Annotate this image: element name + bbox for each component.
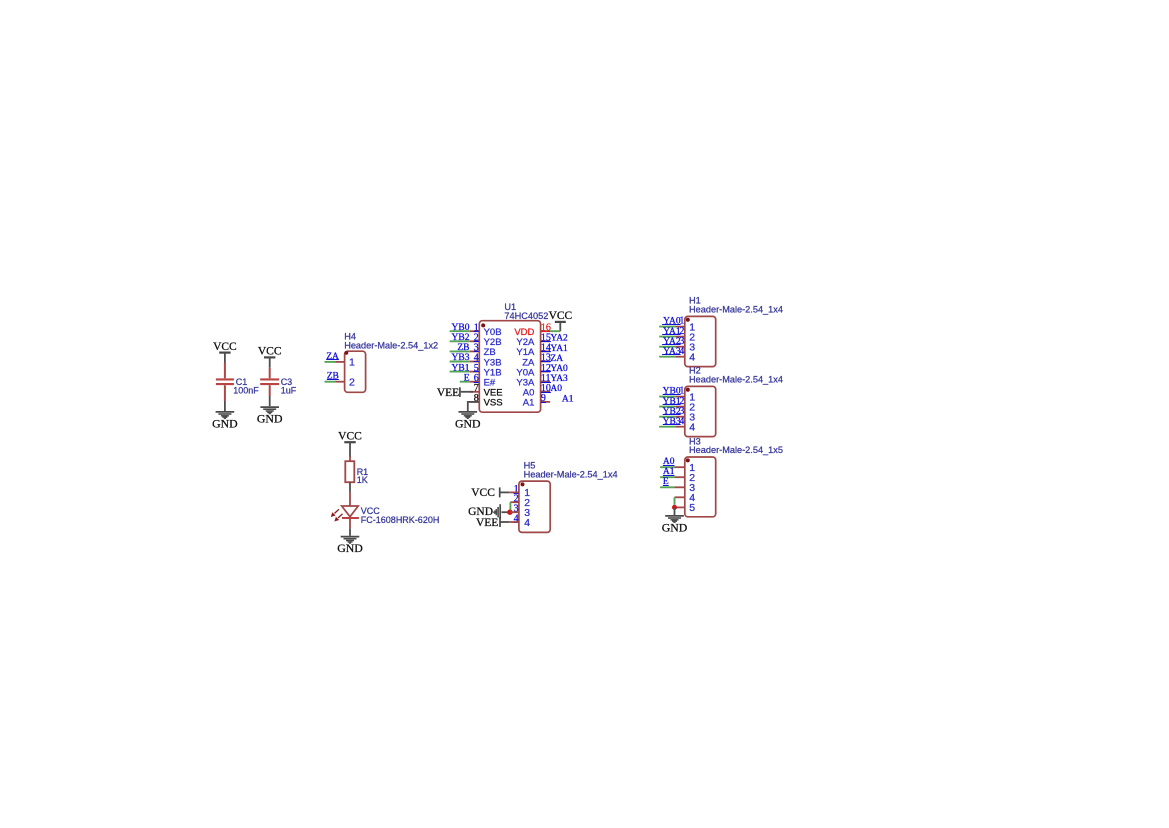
svg-text:GND: GND — [662, 520, 688, 534]
U1 pin 10 — [541, 391, 551, 393]
label R1 1K — [357, 467, 369, 485]
svg-text:YB3: YB3 — [452, 353, 470, 363]
H5 pin 3 — [510, 511, 519, 513]
net label YA0 at H1 pin 1 — [662, 317, 681, 327]
H2 pin 2 — [675, 406, 685, 408]
wire net ZB to H4 pin 2 — [325, 381, 336, 383]
svg-text:YB2: YB2 — [452, 333, 470, 343]
svg-text:E: E — [464, 373, 470, 383]
U1 pin number 5 — [474, 363, 479, 374]
svg-text:FC-1608HRK-620H: FC-1608HRK-620H — [361, 515, 440, 525]
U1 pin 16 — [541, 330, 551, 332]
svg-text:VEE: VEE — [476, 517, 498, 529]
svg-text:VCC: VCC — [258, 346, 282, 358]
H5 pin number 2 — [514, 494, 519, 505]
svg-text:Header-Male-2.54_1x2: Header-Male-2.54_1x2 — [344, 340, 438, 350]
svg-text:A0: A0 — [550, 384, 562, 394]
U1 pin 9 — [541, 401, 551, 403]
label H1 — [689, 296, 783, 315]
net label YB0 at H2 pin 1 — [663, 387, 681, 397]
H2 pin 1 — [675, 396, 685, 398]
svg-text:Header-Male-2.54_1x4: Header-Male-2.54_1x4 — [689, 374, 783, 384]
svg-text:4: 4 — [524, 517, 530, 529]
svg-text:VCC: VCC — [471, 487, 495, 499]
H2 pin 3 — [675, 416, 685, 418]
svg-text:YB3: YB3 — [663, 417, 681, 427]
H5 pin 2 — [510, 501, 519, 503]
wire net YA2 to H1 pin 3 — [659, 346, 675, 348]
svg-text:YA1: YA1 — [550, 344, 568, 354]
label H2 — [689, 366, 783, 385]
U1 pin number 14 — [541, 343, 551, 354]
wire net YB0 to U1 pin 1 — [450, 330, 470, 332]
wire H5 pin 2 to pin 3 junction — [509, 502, 511, 510]
svg-text:YA2: YA2 — [550, 334, 568, 344]
wire C1 to GND — [224, 401, 226, 411]
ground symbol GND at H3 — [662, 516, 688, 534]
ground symbol GND at C1 — [212, 412, 238, 430]
wire net YB1 to U1 pin 5 — [450, 371, 470, 373]
svg-text:8: 8 — [474, 393, 479, 404]
U1 pin number 12 — [541, 363, 551, 374]
svg-text:VEE: VEE — [437, 387, 459, 399]
ground symbol GND at U1 — [455, 412, 481, 430]
svg-text:YB0: YB0 — [663, 387, 681, 397]
svg-text:GND: GND — [257, 412, 283, 426]
svg-text:VCC: VCC — [549, 310, 573, 322]
svg-text:GND: GND — [455, 416, 481, 430]
connector H3 body — [685, 457, 716, 517]
power flag VCC at R1 — [338, 431, 362, 457]
power flag VCC at U1 pin 16 — [549, 310, 573, 331]
svg-text:ZB: ZB — [457, 343, 469, 353]
H4 pin 1 — [335, 361, 344, 363]
wire net YB3 to H2 pin 4 — [659, 426, 675, 428]
wire net YB3 to U1 pin 4 — [450, 361, 470, 363]
net label YB1 at H2 pin 2 — [663, 397, 681, 407]
junction at H5 pin 3 — [507, 510, 512, 515]
ground symbol GND at R1 LED — [337, 537, 363, 555]
net label ZB at H4 pin 2 — [327, 372, 339, 382]
H5 pin number 3 — [514, 504, 519, 515]
U1 pin 2 — [470, 340, 480, 342]
net label YB0 at U1 pin 1 — [452, 323, 470, 333]
H1 pin 2 — [675, 336, 685, 338]
H3 pin 2 — [675, 476, 685, 478]
net label YB1 at U1 pin 5 — [452, 363, 470, 373]
svg-text:YB1: YB1 — [663, 397, 681, 407]
U1 pin 13 — [541, 361, 551, 363]
capacitor C3 — [260, 368, 279, 396]
capacitor C1 — [216, 363, 234, 402]
svg-text:GND: GND — [212, 416, 238, 430]
U1 pin 4 — [470, 361, 480, 363]
wire net YA0 to H1 pin 1 — [659, 326, 675, 328]
wire net YA1 to H1 pin 2 — [659, 336, 675, 338]
net label YA1 at H1 pin 2 — [662, 327, 681, 337]
wire net A0 to H3 pin 1 — [660, 466, 675, 468]
op IC U1 body — [479, 321, 540, 413]
net label A0 at H3 pin 1 — [663, 457, 675, 467]
power flag VEE at U1 pin 7 — [437, 387, 473, 399]
U1 pin number 9 — [541, 393, 546, 404]
svg-text:YA2: YA2 — [663, 337, 681, 347]
connector H4 body — [345, 351, 366, 392]
LED LED1 — [331, 506, 359, 521]
svg-text:YA3: YA3 — [550, 374, 568, 384]
U1 pin number 11 — [541, 373, 551, 384]
svg-text:4: 4 — [689, 352, 695, 364]
svg-text:VSS: VSS — [484, 398, 503, 409]
net label YB2 at H2 pin 3 — [663, 407, 681, 417]
svg-text:A1: A1 — [523, 398, 535, 409]
label H3 — [689, 436, 783, 455]
H3 pin 4 — [675, 496, 685, 498]
svg-text:Header-Male-2.54_1x5: Header-Male-2.54_1x5 — [689, 445, 783, 455]
wire LED to GND — [349, 518, 351, 528]
wire net YB2 to H2 pin 3 — [659, 416, 675, 418]
connector H1 body — [685, 316, 716, 366]
svg-text:YB2: YB2 — [663, 407, 681, 417]
U1 pin 8 — [470, 401, 480, 403]
svg-text:YA1: YA1 — [663, 327, 681, 337]
svg-text:74HC4052: 74HC4052 — [504, 311, 548, 321]
net label E at U1 pin 6 — [464, 373, 470, 383]
net label ZB at U1 pin 3 — [457, 343, 469, 353]
svg-text:Header-Male-2.54_1x4: Header-Male-2.54_1x4 — [524, 470, 618, 480]
U1 pin number 6 — [474, 373, 479, 384]
net label E at H3 pin 3 — [663, 477, 669, 487]
U1 pin 14 — [541, 350, 551, 352]
U1 pin 6 — [470, 381, 480, 383]
svg-text:GND: GND — [337, 541, 363, 555]
U1 pin number 13 — [541, 353, 551, 364]
svg-text:ZA: ZA — [326, 352, 339, 362]
net label YB3 at H2 pin 4 — [663, 417, 681, 427]
junction at H3 pin 5 — [672, 505, 677, 510]
U1 pin 5 — [470, 371, 480, 373]
wire net YB1 to H2 pin 2 — [659, 406, 675, 408]
H3 pin 3 — [675, 486, 685, 488]
wire net ZA to H4 pin 1 — [325, 361, 336, 363]
wire H3 pin 4 to pin 5 — [674, 497, 676, 505]
U1 pin number 2 — [474, 333, 479, 344]
svg-text:2: 2 — [349, 377, 355, 389]
H5 pin 4 — [509, 521, 519, 523]
resistor R1 — [349, 457, 351, 462]
svg-text:YB0: YB0 — [452, 323, 470, 333]
H3 pin 1 — [675, 466, 685, 468]
svg-text:YA3: YA3 — [663, 347, 681, 357]
svg-text:VCC: VCC — [338, 431, 362, 443]
label H4 — [344, 331, 438, 350]
wire net E to H3 pin 3 — [660, 486, 675, 488]
power flag VCC at H5 pin 1 — [471, 487, 509, 499]
svg-text:4: 4 — [689, 422, 695, 434]
H5 pin number 4 — [514, 513, 519, 524]
U1 pin number 4 — [474, 353, 479, 364]
power flag VEE at H5 pin 4 — [476, 517, 509, 529]
net label YA2 at H1 pin 3 — [662, 337, 681, 347]
connector H5 body — [519, 481, 550, 532]
svg-text:1: 1 — [349, 357, 355, 369]
H4 pin 2 — [335, 381, 344, 383]
U1 pin number 10 — [541, 383, 551, 394]
svg-text:YB1: YB1 — [452, 363, 470, 373]
wire R1 to LED — [349, 492, 351, 506]
svg-text:5: 5 — [689, 502, 695, 514]
connector H2 body — [685, 386, 716, 436]
wire net E to U1 pin 6 — [460, 381, 470, 383]
U1 pin 1 — [470, 330, 480, 332]
svg-text:1K: 1K — [357, 475, 368, 485]
svg-text:4: 4 — [679, 346, 684, 357]
H1 pin 4 — [675, 356, 685, 358]
H1 pin 3 — [675, 346, 685, 348]
net label YB3 at U1 pin 4 — [452, 353, 470, 363]
wire net YB2 to U1 pin 2 — [450, 340, 470, 342]
net label YB2 at U1 pin 2 — [452, 333, 470, 343]
U1 pin number 1 — [474, 322, 479, 333]
H2 pin 4 — [675, 426, 685, 428]
svg-text:ZB: ZB — [327, 372, 339, 382]
H5 pin 1 — [509, 491, 519, 493]
wire net ZB to U1 pin 3 — [450, 350, 470, 352]
svg-text:1uF: 1uF — [281, 385, 297, 395]
power flag VCC at C3 — [258, 346, 282, 368]
wire H3 pin 5 to GND — [674, 507, 676, 515]
U1 pin 11 — [541, 381, 551, 383]
svg-text:VCC: VCC — [213, 341, 237, 353]
U1 pin number 3 — [474, 343, 479, 354]
H1 pin 1 — [675, 326, 685, 328]
H3 pin 5 — [675, 506, 685, 508]
wire net YB0 to H2 pin 1 — [659, 396, 675, 398]
wire net YA3 to H1 pin 4 — [659, 356, 675, 358]
wire U1 pin 16 to VCC — [550, 330, 560, 332]
svg-text:Header-Male-2.54_1x4: Header-Male-2.54_1x4 — [689, 304, 783, 314]
power flag VCC at C1 — [213, 341, 237, 363]
U1 pin 12 — [541, 371, 551, 373]
U1 pin number 16 — [541, 322, 551, 333]
svg-text:4: 4 — [679, 416, 684, 427]
ground symbol GND at C3 — [257, 407, 283, 425]
svg-text:A1: A1 — [562, 394, 574, 404]
wire U1 pin 8 to GND — [468, 402, 479, 411]
U1 pin number 15 — [541, 333, 551, 344]
wire C3 to GND — [269, 396, 271, 406]
svg-text:YA0: YA0 — [550, 364, 568, 374]
label LED VCC FC-1608HRK-620H — [361, 506, 440, 525]
label C3 1uF — [281, 377, 297, 395]
wire net A1 to H3 pin 2 — [660, 476, 675, 478]
svg-text:100nF: 100nF — [233, 385, 259, 395]
U1 pin 15 — [541, 340, 551, 342]
svg-text:YA0: YA0 — [663, 317, 681, 327]
U1 pin 3 — [470, 350, 480, 352]
H5 pin number 1 — [514, 484, 519, 495]
net label ZA at H4 pin 1 — [326, 352, 339, 362]
label U1 74HC4052 — [504, 302, 548, 321]
net label YA3 at H1 pin 4 — [662, 347, 681, 357]
power flag GND at H5 pin 3 — [468, 504, 510, 519]
label C1 100nF — [233, 377, 259, 395]
svg-text:ZA: ZA — [550, 354, 563, 364]
net label A1 at H3 pin 2 — [663, 467, 675, 477]
U1 pin 7 — [470, 391, 480, 393]
label H5 — [524, 461, 618, 480]
